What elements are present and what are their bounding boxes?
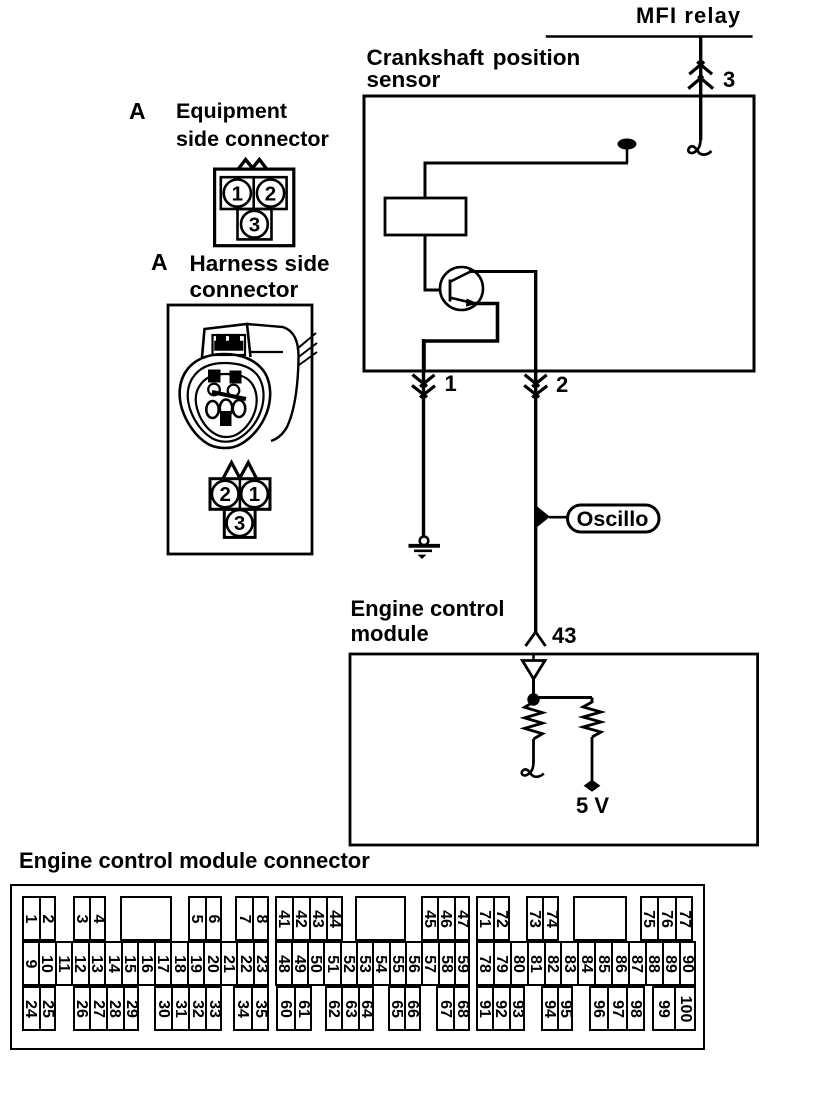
svg-text:1: 1 (232, 182, 243, 205)
svg-text:2: 2 (265, 182, 276, 205)
svg-text:2: 2 (219, 483, 230, 506)
svg-text:1: 1 (249, 483, 260, 506)
svg-text:3: 3 (249, 213, 260, 236)
svg-text:3: 3 (234, 512, 245, 535)
svg-text:Oscillo: Oscillo (577, 507, 649, 531)
